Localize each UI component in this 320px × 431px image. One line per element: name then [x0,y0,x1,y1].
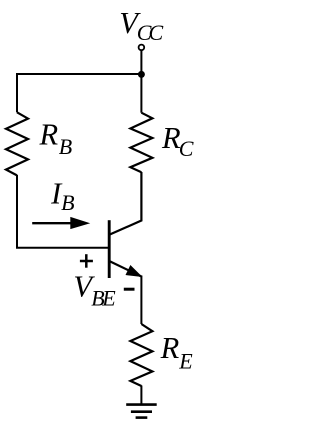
svg-text:BE: BE [91,285,116,310]
svg-text:CC: CC [137,20,164,45]
svg-text:E: E [178,348,193,373]
svg-text:B: B [61,190,74,215]
svg-text:C: C [179,136,194,161]
svg-text:R: R [39,118,59,152]
svg-text:B: B [59,134,72,159]
svg-text:R: R [160,331,180,365]
